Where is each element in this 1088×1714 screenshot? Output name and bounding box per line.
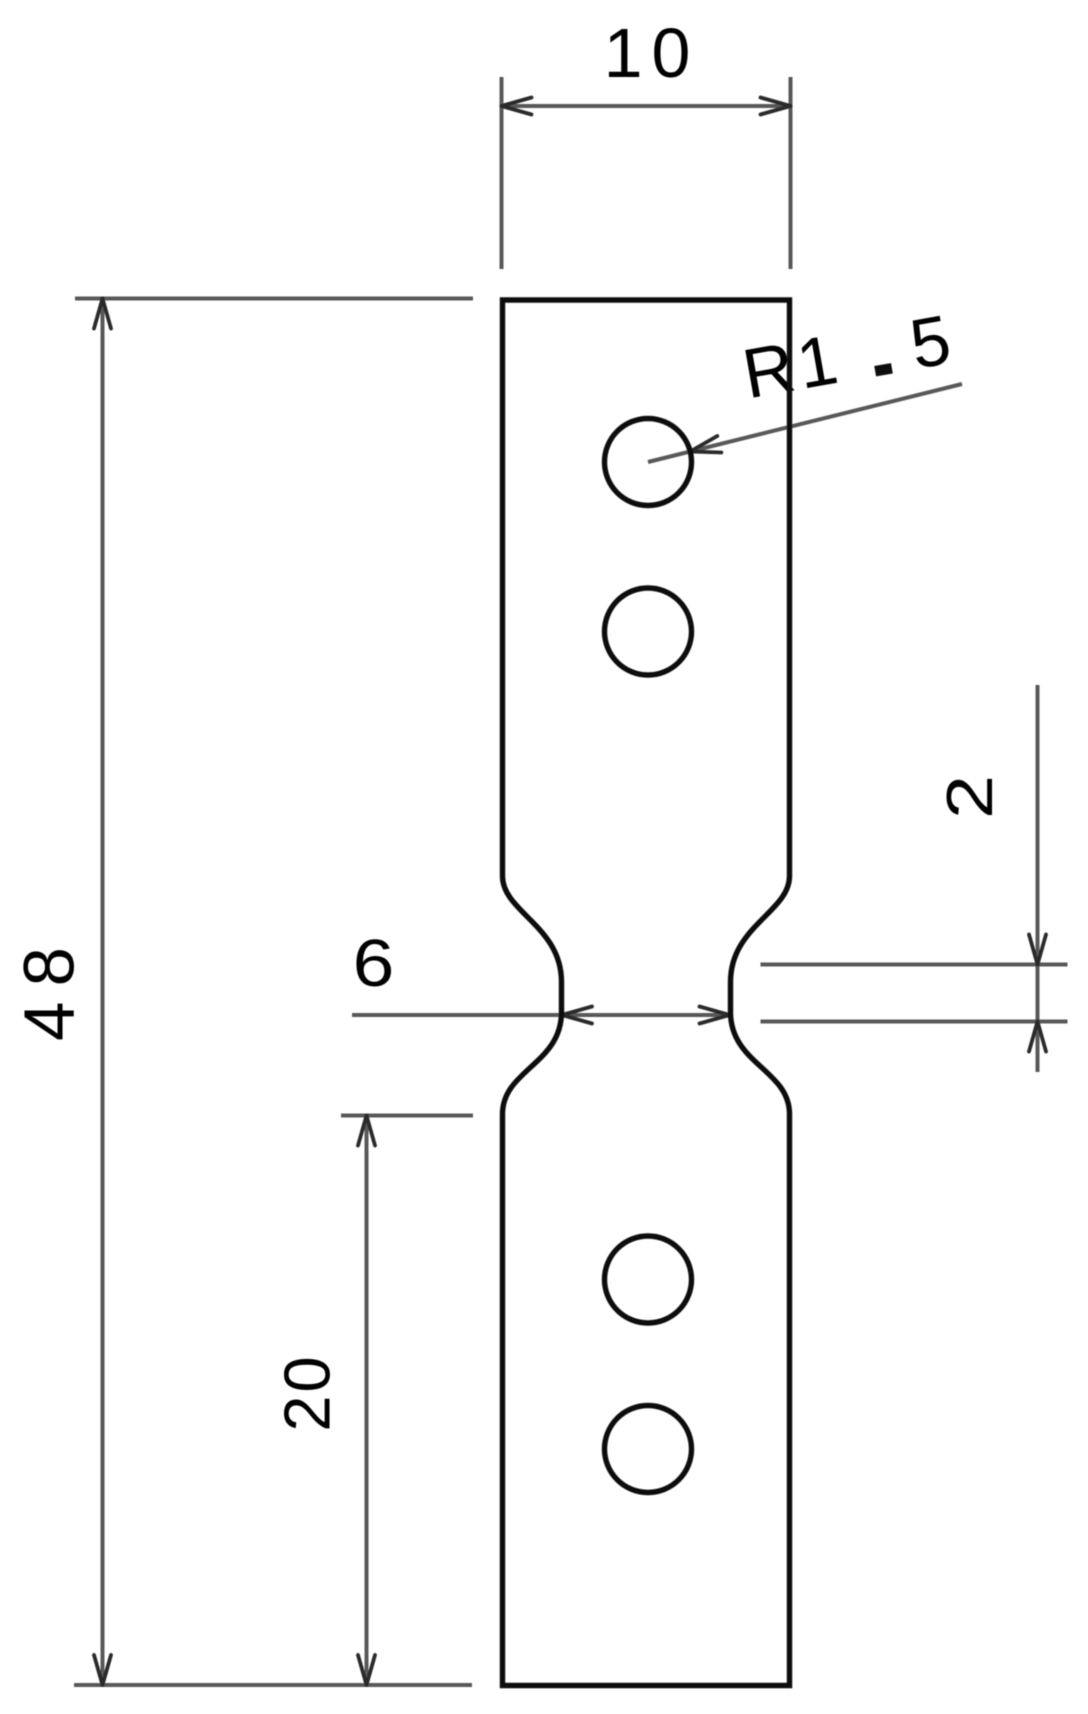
radius leader R1.5: leader line — [648, 384, 962, 462]
svg-text:2: 2 — [934, 775, 1007, 819]
dimension 6: right arrowhead — [700, 1007, 730, 1024]
dimension 20: top extension line — [341, 1114, 473, 1118]
dimension 10: right arrowhead — [761, 98, 791, 115]
dimension 20: bottom extension line (overlaps 48 ext) — [336, 1683, 472, 1687]
hole H2 — [605, 588, 692, 675]
dimension 10: left extension line — [500, 77, 504, 269]
dimension 48: bottom arrowhead — [94, 1655, 111, 1685]
dimension 48: bottom extension line — [74, 1683, 472, 1687]
hole H3 — [605, 1236, 692, 1323]
part outline (dogbone specimen) — [503, 300, 790, 1686]
dimension 10: left arrowhead — [502, 98, 532, 115]
svg-text:48: 48 — [11, 932, 90, 1041]
radius leader R1.5: arrowhead at hole edge — [690, 436, 721, 453]
dimension 2: upper extension line — [761, 963, 1068, 967]
dimension 6: left arrowhead — [562, 1007, 592, 1024]
dimension 20: dimension line — [365, 1116, 369, 1686]
radius leader R1.5: value text (rotated) — [737, 300, 956, 413]
dimension 10: dimension line — [502, 104, 791, 108]
hole H4 (bottom) — [605, 1406, 692, 1493]
dimension 2: dimension line — [1036, 685, 1040, 1072]
dimension 48: dimension line — [101, 299, 105, 1686]
dimension 6: dimension line with tail — [352, 1013, 730, 1017]
dimension 20: top arrowhead — [358, 1116, 375, 1146]
svg-text:20: 20 — [271, 1353, 344, 1431]
svg-text:10: 10 — [604, 14, 700, 92]
dimension 2: upper arrowhead (points down) — [1029, 935, 1046, 965]
dimension 48: top arrowhead — [94, 299, 111, 329]
hole H1 (top) — [605, 419, 692, 506]
dimension 20: bottom arrowhead — [358, 1655, 375, 1685]
dimension 48: top extension line — [75, 297, 473, 301]
dimension 2: lower arrowhead (points up) — [1029, 1022, 1046, 1052]
dimension 2: lower extension line — [761, 1020, 1068, 1024]
dimension 10: right extension line — [789, 77, 793, 269]
svg-text:6: 6 — [353, 927, 395, 1001]
